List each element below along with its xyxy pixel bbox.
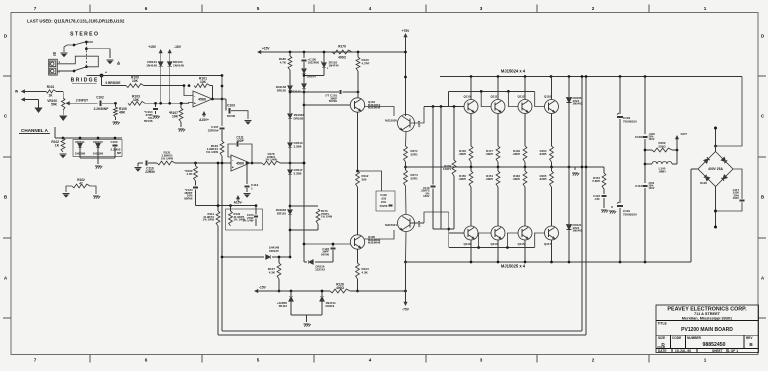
ground C104 xyxy=(152,116,159,119)
node driver mid xyxy=(404,166,407,169)
resistor R174 22R xyxy=(404,162,418,186)
diode DR121 1N5402 xyxy=(567,167,583,262)
svg-text:DATE: DATE xyxy=(658,349,666,353)
svg-text:1022R50: 1022R50 xyxy=(308,60,320,64)
svg-text:.33R5: .33R5 xyxy=(539,177,547,181)
svg-text:1% 1/4W: 1% 1/4W xyxy=(321,215,333,219)
title block xyxy=(656,305,759,353)
svg-text:+15V: +15V xyxy=(262,47,270,51)
switch gang dashed link xyxy=(85,43,87,66)
svg-text:Q110: Q110 xyxy=(463,95,470,99)
resistor R180 4.7K xyxy=(279,52,292,70)
capacitor C100 2.2M50 xyxy=(110,140,121,155)
resistor R128 400 xyxy=(330,283,350,293)
svg-text:47: 47 xyxy=(79,181,83,185)
svg-text:B R I D G E: B R I D G E xyxy=(71,78,98,84)
svg-text:3.3B6: 3.3B6 xyxy=(294,171,302,175)
ground C103 xyxy=(244,121,251,125)
svg-text:100V: 100V xyxy=(733,196,740,200)
capacitor C120 270P xyxy=(242,206,258,226)
capacitor C108 .01 xyxy=(635,133,656,183)
svg-text:NP: NP xyxy=(117,151,121,155)
wire Q105 base feed xyxy=(303,243,351,246)
wire lower base rail xyxy=(447,212,534,249)
wire DR105 to DR108 xyxy=(289,90,291,113)
wire Q105 to Q109 link xyxy=(364,230,394,239)
resistor R103 10K xyxy=(128,95,182,106)
capacitor C103 xyxy=(222,99,248,119)
diode DR105 1N4148 xyxy=(276,85,293,92)
capacitor C113 1u xyxy=(244,163,258,192)
svg-text:+75V: +75V xyxy=(402,29,410,33)
transistor Q117 MJ15025 xyxy=(544,226,559,262)
svg-text:5: 5 xyxy=(257,6,260,11)
wire DR104 to DR106 xyxy=(303,73,305,83)
wire R180 to DR105 xyxy=(289,70,291,85)
wire top collector bus xyxy=(440,75,742,78)
svg-text:1N5402: 1N5402 xyxy=(573,229,583,233)
op-amp U100A supply arrow xyxy=(199,112,209,122)
svg-text:10K: 10K xyxy=(133,98,140,102)
wire bridge bottom terminals xyxy=(714,187,717,229)
capacitor C111 100P xyxy=(228,136,252,164)
svg-text:400Ω: 400Ω xyxy=(338,56,346,60)
wire R107 bottom xyxy=(178,122,185,132)
wire bridge run xyxy=(86,75,222,77)
svg-text:3: 3 xyxy=(480,358,483,363)
last-used note xyxy=(27,19,125,24)
capacitor C130 10K50 xyxy=(301,52,319,68)
svg-text:4.3K: 4.3K xyxy=(269,270,276,274)
inductor L100 .8MH xyxy=(652,162,672,174)
limiter drop R139 xyxy=(443,107,456,230)
power -75V arrow xyxy=(402,298,410,312)
transistor Q114 MJ15025 xyxy=(490,226,505,262)
svg-text:100P: 100P xyxy=(236,139,244,143)
wire +15V rail xyxy=(160,57,162,62)
svg-text:400Ω: 400Ω xyxy=(336,286,344,290)
wire R162 right ground xyxy=(90,186,100,199)
wire loop outer right xyxy=(585,77,587,336)
svg-text:22R50: 22R50 xyxy=(145,170,155,174)
resistor R131 1.82K xyxy=(157,151,175,165)
wire limiter bottom xyxy=(433,228,454,230)
svg-text:7500B100: 7500B100 xyxy=(623,212,637,216)
svg-text:1% 1/4W: 1% 1/4W xyxy=(206,150,218,154)
input arrow 1 xyxy=(22,90,46,93)
svg-text:DR105: DR105 xyxy=(277,88,287,92)
wire loop inner right xyxy=(581,77,583,332)
diode DR101 1N4148 xyxy=(146,60,163,67)
diode CR113 3.3B6 xyxy=(288,141,303,148)
wire rail C109 drop xyxy=(619,77,621,115)
svg-text:1% 1/4W: 1% 1/4W xyxy=(161,156,173,160)
bridge rectifier D100 400V 25A xyxy=(698,152,733,187)
power -15V arrow left xyxy=(255,286,330,293)
svg-text:DR101: DR101 xyxy=(75,140,85,144)
svg-text:DR125: DR125 xyxy=(269,249,279,253)
svg-text:2 INPUT: 2 INPUT xyxy=(76,99,88,103)
svg-text:1N4148: 1N4148 xyxy=(173,63,184,67)
resistor R179 400 xyxy=(332,45,352,60)
resistor R160 4.7K xyxy=(185,163,198,181)
wire R152 branch xyxy=(644,149,652,166)
svg-text:4.3K: 4.3K xyxy=(362,270,369,274)
svg-text:D100: D100 xyxy=(700,181,707,185)
wire bridge plus rail xyxy=(714,77,742,148)
svg-text:7: 7 xyxy=(34,358,37,363)
svg-text:50K: 50K xyxy=(51,103,58,107)
label IN xyxy=(15,90,19,94)
svg-text:1K: 1K xyxy=(55,144,60,148)
capacitor C107 22R50 xyxy=(208,125,225,141)
connector J100 body xyxy=(49,59,61,75)
op-amp U100A 4560 xyxy=(193,91,212,107)
wire DR110 down xyxy=(289,205,292,259)
svg-text:1% 1/4W: 1% 1/4W xyxy=(265,158,277,162)
wire DR101 to input node xyxy=(159,66,162,104)
capacitor C117 .01 xyxy=(716,169,745,211)
capacitor C110 22R50 xyxy=(138,160,157,174)
power -15V arrow xyxy=(168,45,181,57)
ground C119 xyxy=(609,206,616,214)
emitter resistor R165 .33R xyxy=(539,167,554,226)
resistor R132 41.9K xyxy=(229,206,246,226)
label MJ15025 x 4 xyxy=(501,264,526,269)
svg-text:R179: R179 xyxy=(338,45,346,49)
svg-text:DR119: DR119 xyxy=(326,304,335,308)
input arrow 2 xyxy=(22,98,39,107)
transistor Q115 MJ15025 xyxy=(517,226,532,262)
ground zobel xyxy=(601,210,608,213)
label STEREO xyxy=(70,32,98,38)
wire loop outer left xyxy=(217,163,219,335)
wire L100 branch xyxy=(645,163,652,165)
emitter resistor R163 .33R xyxy=(512,167,527,226)
svg-text:50V06: 50V06 xyxy=(329,99,338,103)
svg-text:.33R5: .33R5 xyxy=(539,152,547,156)
label CHANNEL A xyxy=(19,128,50,134)
svg-text:+: + xyxy=(105,71,107,75)
svg-text:220Ω: 220Ω xyxy=(658,144,666,148)
svg-text:-75V: -75V xyxy=(402,308,410,312)
svg-text:22R1: 22R1 xyxy=(411,152,418,156)
switch S100 lower pole xyxy=(64,65,88,72)
svg-text:.8MH: .8MH xyxy=(658,169,665,173)
wire noninverting input xyxy=(180,102,193,105)
ground zener common xyxy=(303,324,310,327)
power +15V rail arrow xyxy=(258,47,406,54)
bridge diode NE xyxy=(721,157,727,163)
svg-text:4560: 4560 xyxy=(198,98,206,102)
ground clamp xyxy=(95,166,102,169)
wire Q118 base drop xyxy=(535,91,545,106)
svg-text:1% 1/4W: 1% 1/4W xyxy=(242,219,254,223)
label -75V bottom right rail xyxy=(0,0,1,1)
svg-text:.33R5: .33R5 xyxy=(512,177,520,181)
svg-text:22R1: 22R1 xyxy=(411,176,418,180)
svg-text:10K: 10K xyxy=(132,79,139,83)
wire R128 to Q109 rail xyxy=(350,290,407,293)
svg-text:100P1: 100P1 xyxy=(443,167,451,171)
pot wiper arrow xyxy=(67,102,71,105)
capacitor C104 270P xyxy=(144,103,158,123)
wire lower base feed xyxy=(424,212,449,223)
svg-text:1: 1 xyxy=(704,358,707,363)
svg-text:MJ15024 x 4: MJ15024 x 4 xyxy=(501,68,526,73)
svg-text:C103: C103 xyxy=(227,104,235,108)
diode DR105b 1N5402 xyxy=(567,77,583,168)
svg-text:-15V: -15V xyxy=(259,286,267,290)
wire DR103 to input node xyxy=(168,66,171,104)
svg-text:19-JUL-96: 19-JUL-96 xyxy=(675,349,691,353)
svg-text:4560: 4560 xyxy=(236,162,244,166)
wire rail C108 drop xyxy=(644,77,646,135)
svg-text:1% 1/4W: 1% 1/4W xyxy=(203,218,215,222)
wire drive line xyxy=(280,162,305,165)
svg-text:6: 6 xyxy=(145,358,148,363)
ground B xyxy=(53,51,68,58)
wire bottom bus xyxy=(406,261,692,264)
wire Q104 to Q108 link xyxy=(364,107,394,117)
transistor Q113 MJ15025 xyxy=(463,226,478,262)
wire R127 to minus15 run xyxy=(278,279,281,292)
diode DR125 1N4148 xyxy=(221,246,290,260)
input wire xyxy=(71,99,98,104)
svg-text:MJ15020: MJ15020 xyxy=(385,119,397,123)
wire Q104 emitter xyxy=(356,112,359,172)
wire bridge left to bottom bus xyxy=(691,169,698,262)
svg-text:1S2142: 1S2142 xyxy=(291,90,301,94)
diode DR103 1N4148 xyxy=(168,60,185,67)
wire switch to ground B xyxy=(64,45,74,52)
wire R174 to Q109 xyxy=(405,186,408,215)
resistor R101f 10K feedback xyxy=(188,77,213,88)
wire upper base rail xyxy=(448,90,534,106)
diode DR108 1N4003 xyxy=(288,113,304,120)
svg-text:Q108: Q108 xyxy=(417,120,421,127)
wire clamp bus xyxy=(55,127,122,139)
wire Q111 base drop xyxy=(481,91,491,106)
wire J100 pin2 to lower contact xyxy=(57,70,64,72)
wire Q108 emitter drop xyxy=(405,132,408,147)
svg-text:80R06: 80R06 xyxy=(184,196,193,200)
resistor R171 22R xyxy=(404,146,418,162)
wire Q115 base riser xyxy=(508,233,519,248)
capacitor C123 .15F xyxy=(593,189,606,208)
wire VAS node xyxy=(303,91,306,262)
svg-text:100V: 100V xyxy=(649,187,655,190)
capacitor C119 7500u xyxy=(617,202,637,262)
capacitor C118 .033 xyxy=(358,171,396,211)
resistor R154 5.6R xyxy=(592,167,606,189)
svg-text:TITLE: TITLE xyxy=(658,322,668,326)
svg-text:.33R5: .33R5 xyxy=(458,177,466,181)
wire Q109 to -75V xyxy=(405,262,407,298)
svg-text:1 OF 1: 1 OF 1 xyxy=(728,349,739,353)
svg-text:4.7K: 4.7K xyxy=(280,60,287,64)
ground R102 xyxy=(59,154,66,158)
svg-text:.33R5: .33R5 xyxy=(485,152,493,156)
svg-text:S T E R E O: S T E R E O xyxy=(70,32,98,38)
wire feedback loop inner xyxy=(221,74,224,126)
ground output bus xyxy=(572,167,579,176)
capacitor C126 39PF xyxy=(321,243,336,257)
ground VR100 filled xyxy=(59,116,67,122)
svg-text:1K: 1K xyxy=(48,93,53,97)
svg-text:B: B xyxy=(53,51,56,56)
svg-text:NUMBER: NUMBER xyxy=(687,336,702,340)
ground C113 xyxy=(243,194,250,198)
box around clamp diodes xyxy=(73,140,122,157)
transistor Q110 MJ15024 xyxy=(463,77,478,147)
svg-text:+15V: +15V xyxy=(148,45,157,49)
transistor Q118 MJ15024 xyxy=(544,77,559,147)
svg-text:C118: C118 xyxy=(380,193,387,197)
svg-text:1N4744: 1N4744 xyxy=(329,63,339,67)
wire Q104 base xyxy=(304,104,351,106)
svg-text:MJE8648: MJE8648 xyxy=(368,241,381,245)
resistor R107 10K xyxy=(169,103,183,122)
svg-text:C113: C113 xyxy=(635,184,642,188)
ground C110 xyxy=(134,163,141,172)
emitter resistor R164 .33R xyxy=(539,146,554,167)
ground input filled xyxy=(34,108,42,114)
wire R162 left ground xyxy=(62,186,72,198)
wire loop inner bottom xyxy=(222,330,582,332)
bridge diode NW xyxy=(704,157,710,163)
svg-text:.33R5: .33R5 xyxy=(512,152,520,156)
limiter drop C116 xyxy=(420,107,435,230)
svg-text:Q111: Q111 xyxy=(491,95,498,99)
svg-text:100V: 100V xyxy=(423,194,430,198)
svg-text:5.6R5: 5.6R5 xyxy=(592,179,600,183)
capacitor C102 2.2K50NP xyxy=(94,96,116,111)
svg-text:7500B100: 7500B100 xyxy=(623,119,637,123)
resistor R134 4.3K xyxy=(356,263,369,279)
wire R101 to pot xyxy=(56,91,63,98)
svg-text:.15F: .15F xyxy=(594,197,600,201)
emitter resistor R146 .33R xyxy=(458,146,473,167)
svg-text:6 BRIDGE: 6 BRIDGE xyxy=(105,81,120,85)
wire 6-bridge run xyxy=(102,81,127,86)
power +75V arrow xyxy=(402,29,410,41)
box around R132 C120 xyxy=(226,209,263,230)
wire upper base feed xyxy=(424,105,448,108)
capacitor C134 180PF xyxy=(184,181,198,206)
wire Q113 base stub xyxy=(449,232,464,234)
zener ZR112 22R50 xyxy=(277,290,293,315)
svg-text:50V06: 50V06 xyxy=(321,252,329,256)
svg-text:1S2142: 1S2142 xyxy=(315,268,325,272)
wire R133 to Q104 xyxy=(357,71,359,98)
resistor R127 4.3K xyxy=(268,256,281,279)
svg-text:50V06: 50V06 xyxy=(380,204,388,208)
transistor Q109 MJ15021 xyxy=(385,215,421,232)
svg-text:22R50#: 22R50# xyxy=(208,128,219,132)
svg-text:1N5402: 1N5402 xyxy=(573,102,583,106)
resistor R162 47 xyxy=(72,178,90,188)
emitter resistor R150 .33R xyxy=(458,167,473,226)
svg-text:.033: .033 xyxy=(381,197,387,201)
transistor Q111 MJ15024 xyxy=(491,77,505,147)
emitter resistor R151 .33R xyxy=(485,167,500,226)
svg-text:.33R5: .33R5 xyxy=(458,152,466,156)
svg-text:MJ15025 x 4: MJ15025 x 4 xyxy=(501,264,526,269)
bridge diode SE xyxy=(721,175,727,181)
op-amp U100B 4560 xyxy=(231,155,250,171)
svg-text:DR100: DR100 xyxy=(93,140,103,144)
node input junction xyxy=(114,102,117,105)
svg-text:Q114: Q114 xyxy=(490,242,497,246)
label A15V- supply xyxy=(234,196,243,205)
wire Q112 base drop xyxy=(508,91,518,106)
svg-text:3: 3 xyxy=(480,6,483,11)
wire Q105 emitter xyxy=(357,249,359,263)
svg-text:4: 4 xyxy=(369,6,372,11)
svg-text:4.7PF: 4.7PF xyxy=(362,61,370,65)
diode CR117 3.3B6 xyxy=(288,168,303,175)
transistor Q105 MJE15031 xyxy=(350,235,380,249)
resistor R101 1K xyxy=(46,85,56,97)
wire +75V drop xyxy=(404,41,407,116)
power +15V arrow xyxy=(148,45,162,57)
wire R100 to op-amp xyxy=(144,84,185,87)
resistor R102 1K xyxy=(51,138,65,152)
svg-text:1: 1 xyxy=(704,6,707,11)
svg-text:Q117: Q117 xyxy=(544,242,551,246)
resistor R114 41.9K xyxy=(203,211,220,226)
svg-text:400V 25A: 400V 25A xyxy=(708,167,723,171)
wire feedback vertical xyxy=(211,86,214,101)
svg-text:Q118: Q118 xyxy=(544,95,551,99)
emitter resistor R177 .33R xyxy=(485,146,500,167)
node C104 tap xyxy=(154,102,157,105)
svg-text:1N4148: 1N4148 xyxy=(146,63,157,67)
transistor Q112 MJ15024 xyxy=(517,77,532,147)
wire inverting input xyxy=(184,86,193,96)
svg-text:10K: 10K xyxy=(200,80,207,84)
zener ZR102 1N4744 xyxy=(321,51,339,76)
wire Q109 emitter drop xyxy=(404,232,407,264)
svg-text:6: 6 xyxy=(145,6,148,11)
wire Q114 base riser xyxy=(479,233,491,248)
diode DR126 1S2142 xyxy=(304,253,333,272)
transistor Q104 MJE15030 xyxy=(350,98,380,112)
svg-text:711 A STREET: 711 A STREET xyxy=(694,312,721,316)
svg-text:SIZE: SIZE xyxy=(658,336,665,340)
wire CR113 to CR117 xyxy=(289,147,291,169)
svg-text:50V06: 50V06 xyxy=(144,119,153,123)
resistor R178 100R xyxy=(262,152,280,165)
bridge diode SW xyxy=(704,175,710,181)
svg-text:LAST USED: Q115,R178,C131,J105: LAST USED: Q115,R178,C131,J105,DR12B,U10… xyxy=(27,19,125,24)
ground A xyxy=(106,60,120,65)
svg-text:Q115: Q115 xyxy=(517,242,524,246)
svg-text:98852450: 98852450 xyxy=(703,342,726,348)
svg-text:Q109: Q109 xyxy=(417,220,421,227)
svg-text:A: A xyxy=(117,60,120,65)
wire R112 to Q105 xyxy=(357,187,359,235)
svg-text:CODE: CODE xyxy=(672,336,681,340)
svg-text:100V: 100V xyxy=(649,138,655,141)
resistor R173 750R xyxy=(289,206,333,231)
transistor Q108 MJ15020 xyxy=(385,115,421,132)
capacitor C101 390P xyxy=(325,90,359,103)
wire clamp bottom xyxy=(80,147,115,164)
svg-text:DR10B: DR10B xyxy=(294,116,305,120)
wire bridge stub down xyxy=(101,76,103,86)
